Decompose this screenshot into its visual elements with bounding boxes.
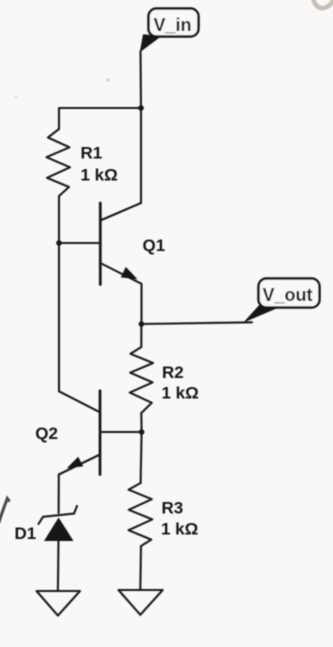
V_in flag box [149, 9, 199, 37]
wire V_out horizontal [141, 322, 252, 324]
transistor Q2 [59, 391, 100, 412]
V_out flag box [259, 279, 320, 308]
svg-text:Q1: Q1 [143, 236, 166, 255]
svg-text:D1: D1 [15, 524, 37, 543]
V_out flag pointer [243, 305, 277, 322]
wire R3 bottom [139, 546, 142, 590]
svg-text:Q2: Q2 [35, 424, 58, 443]
svg-text:V_out: V_out [263, 285, 313, 305]
svg-text:1 kΩ: 1 kΩ [81, 166, 118, 185]
handwriting tick artifact left edge [0, 499, 9, 523]
svg-text:R2: R2 [162, 363, 184, 382]
node junction Q1 base [56, 240, 62, 246]
wire left rail to Q2 collector [58, 243, 60, 391]
wire R2 top [140, 324, 142, 347]
handwriting artifact top right corner [313, 0, 333, 8]
svg-text:V_in: V_in [154, 15, 192, 35]
wire D1 to ground [57, 540, 60, 591]
wire V_in stem [139, 52, 142, 109]
wire R2 bottom [140, 413, 142, 432]
wire Q1 base [59, 242, 99, 244]
svg-text:R3: R3 [162, 499, 184, 518]
wire Vin rail to Q1 collector [140, 108, 142, 203]
svg-text:1 kΩ: 1 kΩ [162, 384, 199, 403]
resistor R1 [47, 129, 71, 196]
transistor Q1 [100, 203, 141, 221]
V_in flag pointer [140, 34, 162, 52]
scan speck artifacts [106, 78, 109, 81]
wire R3 top [141, 432, 142, 483]
ground GND2 [119, 590, 163, 615]
svg-text:R1: R1 [81, 144, 103, 163]
node junction Vin rail [138, 105, 144, 111]
zener diode D1 bar [39, 506, 78, 524]
wire Q2 base [100, 431, 141, 433]
node junction R2/R3/Q2 base [139, 429, 145, 435]
Q2 emitter arrowhead [67, 457, 83, 469]
ground GND1 [37, 591, 81, 616]
resistor R3 [129, 483, 153, 546]
Q1 emitter arrowhead [121, 267, 138, 279]
node junction V_out [139, 321, 145, 327]
wire R1 to Q1 base node [58, 196, 60, 243]
diode D1 triangle [44, 518, 74, 542]
wire top horizontal rail [59, 108, 141, 129]
resistor R2 [130, 347, 153, 413]
svg-text:1 kΩ: 1 kΩ [161, 520, 198, 539]
